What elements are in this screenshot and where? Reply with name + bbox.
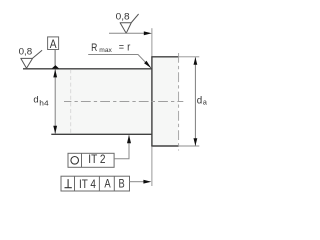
wire circularity leader <box>114 136 129 159</box>
dimension dh4 top arrowhead <box>53 69 57 77</box>
wire perpendicularity leader <box>130 181 145 183</box>
svg-text:0,8: 0,8 <box>116 12 130 22</box>
wire shoulder bottom edge <box>151 145 178 147</box>
svg-text:a: a <box>203 99 207 106</box>
circularity symbol <box>71 157 79 165</box>
shaft body fill <box>56 69 152 134</box>
circularity leader arrowhead <box>127 135 131 144</box>
svg-text:R: R <box>91 42 97 54</box>
dimension da line <box>194 57 196 145</box>
wire da top extension line <box>179 56 200 58</box>
wire shaft bottom surface line <box>51 133 152 135</box>
svg-text:B: B <box>119 177 125 191</box>
dimension da bottom arrowhead <box>194 138 198 146</box>
node vertical centerline of shoulder <box>178 53 180 151</box>
shoulder body fill <box>152 57 178 145</box>
svg-text:A: A <box>50 39 57 51</box>
svg-text:IT 2: IT 2 <box>88 152 105 166</box>
dimension dh4 bottom arrowhead <box>53 126 57 134</box>
wire shoulder left face edge <box>151 56 153 146</box>
svg-text:d: d <box>197 96 202 107</box>
svg-text:max: max <box>99 47 112 54</box>
svg-text:A: A <box>104 177 110 191</box>
dimension da top arrowhead <box>194 57 198 65</box>
perpendicularity symbol <box>65 179 72 188</box>
datum A triangle <box>52 65 60 69</box>
node bearing seat boundary dashed line <box>70 69 72 133</box>
roughness symbol left <box>21 50 42 68</box>
wire roughness top leader <box>109 32 145 34</box>
svg-text:r: r <box>127 41 130 53</box>
circularity tolerance frame <box>68 153 114 167</box>
svg-text:d: d <box>33 95 38 106</box>
wire extension line above shoulder face <box>151 28 153 56</box>
wire da bottom extension line <box>179 145 200 147</box>
perpendicularity tolerance frame <box>61 176 130 191</box>
roughness symbol top <box>120 14 139 33</box>
svg-text:0,8: 0,8 <box>19 46 33 56</box>
svg-text:=: = <box>119 42 124 54</box>
wire Rmax leader <box>88 55 151 68</box>
wire shaft top surface line <box>23 68 152 70</box>
svg-text:h4: h4 <box>39 100 48 107</box>
wire shoulder top edge <box>151 56 178 58</box>
roughness top leader arrowhead <box>144 31 152 35</box>
wire extension line below shoulder face <box>151 147 153 186</box>
dimension dh4 line <box>54 69 56 133</box>
Rmax leader arrowhead <box>144 61 151 68</box>
node horizontal centerline axis <box>64 101 183 103</box>
perpendicularity leader arrowhead <box>143 180 151 184</box>
svg-text:IT 4: IT 4 <box>79 177 96 191</box>
wire datum A leader <box>54 50 56 66</box>
datum A frame <box>48 37 59 50</box>
